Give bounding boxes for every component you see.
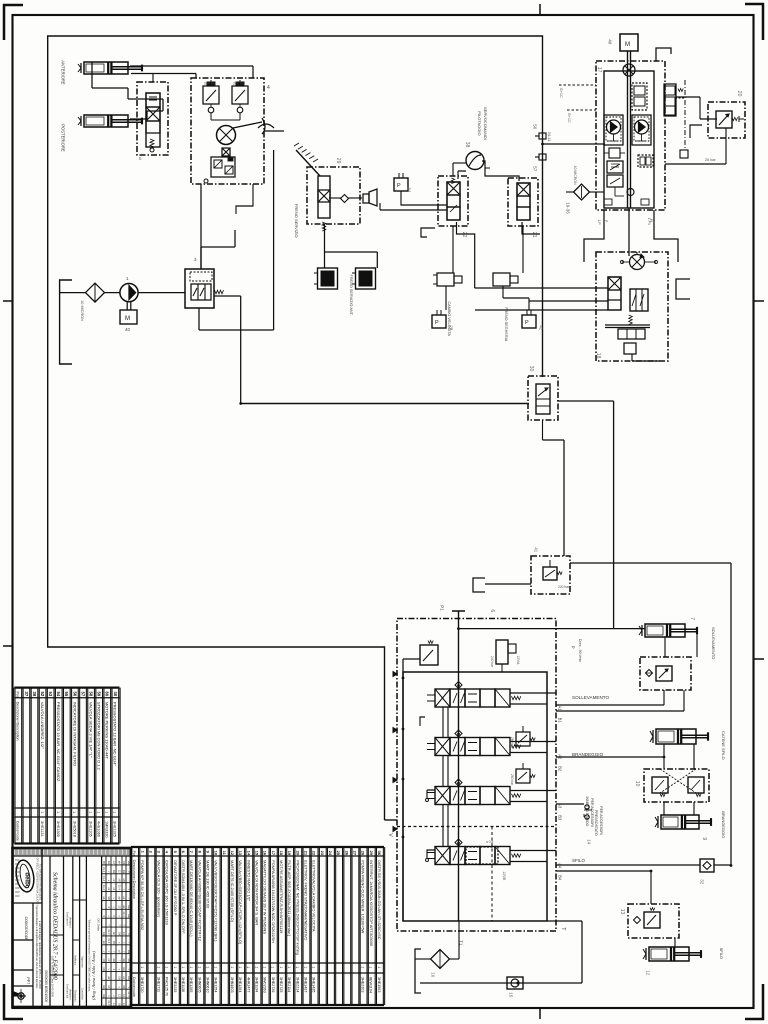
- svg-text:B3: B3: [558, 815, 563, 821]
- svg-text:20: 20: [736, 91, 742, 97]
- svg-text:RE: RE: [102, 985, 106, 989]
- svg-text:1: 1: [189, 966, 193, 968]
- svg-text:MART.DE 130 IC.455 ST.60: MART.DE 130 IC.455 ST.60: [206, 860, 211, 909]
- svg-text:260 bar: 260 bar: [510, 774, 514, 786]
- svg-text:1: 1: [197, 966, 201, 968]
- svg-text:3HE2214: 3HE2214: [295, 977, 299, 992]
- svg-text:31-4: 31-4: [102, 876, 106, 882]
- svg-text:SERVOCOMANDI: SERVOCOMANDI: [483, 107, 488, 140]
- svg-text:3HE1720: 3HE1720: [140, 977, 144, 992]
- svg-text:31-4: 31-4: [117, 885, 121, 891]
- svg-text:3HE1325: 3HE1325: [113, 821, 117, 837]
- svg-text:A4: A4: [558, 863, 563, 869]
- svg-text:14: 14: [587, 839, 592, 845]
- svg-text:3HE5018: 3HE5018: [72, 821, 76, 837]
- svg-text:SOLLEVAMENTO: SOLLEVAMENTO: [711, 627, 716, 659]
- svg-text:29: 29: [335, 158, 341, 164]
- svg-text:1: 1: [279, 966, 283, 968]
- svg-text:1: 1: [246, 966, 250, 968]
- svg-text:POMPA FRENO CUD MINER. 1/1100=: POMPA FRENO CUD MINER. 1/1100=5W: [361, 860, 366, 934]
- svg-text:26 bar: 26 bar: [705, 158, 717, 162]
- svg-text:3HN1603: 3HN1603: [230, 977, 234, 993]
- svg-text:FILTR.ASP. 50E.2X110/AL2011 (A: FILTR.ASP. 50E.2X110/AL2011 (Alimentaz.): [287, 860, 292, 937]
- svg-text:40: 40: [113, 692, 118, 697]
- svg-text:Codice=code: Codice=code: [132, 977, 136, 997]
- svg-text:15: 15: [255, 851, 260, 856]
- svg-text:240 bar: 240 bar: [490, 656, 494, 668]
- svg-text:P: P: [397, 183, 401, 189]
- svg-text:ELETTROV. FRENO STAZIONAM/NEGA: ELETTROV. FRENO STAZIONAM/NEGATIVO: [304, 860, 309, 940]
- svg-text:CATENE SFILO: CATENE SFILO: [721, 731, 726, 760]
- svg-text:1: 1: [230, 966, 234, 968]
- svg-text:57: 57: [80, 692, 85, 697]
- svg-text:4: 4: [267, 85, 270, 91]
- svg-text:10 MICRON: 10 MICRON: [80, 300, 84, 321]
- svg-text:RE: RE: [122, 870, 126, 874]
- svg-text:TEL 059-313000 FAX 059-313001: TEL 059-313000 FAX 059-313001: [39, 864, 42, 901]
- svg-text:VALVOLA OLS 120 - (posteriore): VALVOLA OLS 120 - (posteriore): [157, 860, 162, 917]
- svg-text:9W02363: 9W02363: [263, 977, 267, 993]
- svg-text:19: 19: [287, 851, 292, 856]
- svg-text:BRANDEGGIO: BRANDEGGIO: [572, 752, 604, 757]
- svg-text:Drex - 90 l/min: Drex - 90 l/min: [578, 639, 582, 662]
- svg-text:Disegnato: Disegnato: [74, 990, 77, 1002]
- svg-text:RE: RE: [102, 994, 106, 998]
- svg-text:CAMBIO VELOCITA: CAMBIO VELOCITA: [447, 301, 451, 336]
- svg-text:3HE1500: 3HE1500: [56, 821, 60, 837]
- svg-text:1: 1: [40, 811, 44, 813]
- svg-text:OK: OK: [117, 932, 121, 936]
- svg-text:55: 55: [64, 692, 69, 697]
- svg-text:RE: RE: [127, 905, 131, 909]
- svg-text:FRENO SEGHERIA: FRENO SEGHERIA: [504, 307, 508, 341]
- svg-text:RE: RE: [122, 967, 126, 971]
- svg-text:ANTERIORE: ANTERIORE: [61, 60, 66, 85]
- svg-text:14: 14: [246, 851, 251, 856]
- svg-text:3HE1435: 3HE1435: [312, 977, 316, 992]
- svg-text:1MN3320: 1MN3320: [105, 821, 109, 837]
- svg-text:DIS. N. B0501000 Data 10-05-: DIS. N. B0501000 Data 10-05-2000: [51, 956, 55, 998]
- svg-text:OK: OK: [122, 861, 126, 865]
- svg-text:PP7: PP7: [26, 977, 30, 984]
- svg-text:VALVOLA SEDIA 3 VIE 1/4" "L": VALVOLA SEDIA 3 VIE 1/4" "L": [89, 702, 94, 758]
- svg-text:4HE1060: 4HE1060: [97, 821, 101, 837]
- svg-text:a termini di legge - riproduzi: a termini di legge - riproduzione vietat…: [38, 921, 41, 990]
- svg-text:INNESTO RAPIDO 1/2": INNESTO RAPIDO 1/2": [246, 860, 251, 902]
- svg-text:FRENO SERVIZIO ANT.: FRENO SERVIZIO ANT.: [349, 275, 353, 316]
- svg-text:42: 42: [539, 325, 544, 331]
- svg-text:28: 28: [361, 851, 366, 856]
- svg-text:3HN0610: 3HN0610: [206, 977, 210, 993]
- svg-text:INNESTO RAPIDO: INNESTO RAPIDO: [585, 797, 589, 827]
- svg-text:31-4: 31-4: [107, 1000, 111, 1006]
- svg-text:1: 1: [271, 966, 275, 968]
- svg-text:24: 24: [328, 851, 333, 856]
- svg-text:PHC125.70: PHC125.70: [165, 977, 169, 996]
- svg-text:INTERRUT. 2xMARCIA KISSOSTOP A: INTERRUT. 2xMARCIA KISSOSTOP ART.503000: [369, 860, 374, 947]
- svg-text:SOLLEVAMENTO: SOLLEVAMENTO: [572, 695, 610, 700]
- svg-text:54: 54: [56, 692, 61, 697]
- svg-text:16: 16: [263, 851, 268, 856]
- svg-text:3HE1134: 3HE1134: [255, 977, 259, 992]
- svg-text:M: M: [625, 42, 630, 48]
- svg-text:3HN0605: 3HN0605: [197, 977, 201, 993]
- svg-text:10 MICRON: 10 MICRON: [573, 166, 577, 186]
- svg-text:31-4: 31-4: [102, 885, 106, 891]
- svg-text:12: 12: [646, 970, 651, 976]
- svg-text:FRENO SERVIZIO: FRENO SERVIZIO: [294, 204, 299, 238]
- svg-text:SFILO: SFILO: [572, 858, 586, 863]
- svg-text:4HA1477: 4HA1477: [246, 977, 250, 992]
- svg-text:3HE1437: 3HE1437: [303, 977, 307, 992]
- svg-text:MO: MO: [107, 896, 111, 900]
- svg-text:3HE1711: 3HE1711: [157, 977, 161, 992]
- svg-text:B2: B2: [558, 766, 563, 772]
- svg-text:1: 1: [312, 966, 316, 968]
- svg-text:RE: RE: [112, 870, 116, 874]
- svg-text:POMPA AR4058 104117/22W-NDC GR: POMPA AR4058 104117/22W-NDC GR2022/5H: [271, 860, 276, 943]
- svg-text:1: 1: [96, 811, 100, 813]
- svg-text:OK: OK: [117, 976, 121, 980]
- svg-text:21: 21: [304, 851, 309, 856]
- svg-text:DIS. Delbo: DIS. Delbo: [97, 919, 101, 932]
- svg-text:DISTR.SDM140/4 -3 IN 1- SFILO: DISTR.SDM140/4 -3 IN 1- SFILO ON-OFF: [181, 860, 186, 934]
- svg-text:3HE2203: 3HE2203: [361, 977, 365, 992]
- svg-text:VALV.VBSO=DE33CCAP=FC25L=12X90: VALV.VBSO=DE33CCAP=FC25L=12X90 (BR.): [214, 860, 219, 942]
- svg-text:3HE1264: 3HE1264: [238, 977, 242, 992]
- svg-text:P: P: [435, 320, 439, 326]
- svg-text:31-4: 31-4: [122, 911, 126, 917]
- svg-text:12V/A: 12V/A: [516, 655, 520, 665]
- svg-text:36: 36: [377, 851, 382, 856]
- svg-text:240 bar: 240 bar: [204, 82, 217, 86]
- svg-text:(Ang / Anna / Aldo / Aooo): (Ang / Anna / Aldo / Aooo): [91, 951, 96, 1000]
- svg-text:0600X000 B05010000: 0600X000 B05010000: [44, 970, 48, 1002]
- svg-text:10: 10: [634, 781, 640, 787]
- svg-text:VALV.A=VB50=SE33CCAP=FC3PL=12=: VALV.A=VB50=SE33CCAP=FC3PL=12=(SFILO): [238, 860, 243, 945]
- svg-text:MO: MO: [122, 985, 126, 989]
- svg-text:3HE1265: 3HE1265: [189, 977, 193, 992]
- svg-text:3HE1105: 3HE1105: [88, 821, 92, 837]
- svg-text:P: P: [604, 220, 608, 222]
- svg-text:38: 38: [464, 142, 470, 148]
- svg-text:1: 1: [254, 966, 258, 968]
- svg-text:1: 1: [140, 966, 144, 968]
- svg-text:P: P: [525, 320, 529, 326]
- svg-text:1: 1: [72, 811, 76, 813]
- svg-text:MO: MO: [122, 879, 126, 883]
- svg-text:56: 56: [533, 124, 538, 130]
- svg-text:RE: RE: [122, 959, 126, 963]
- svg-text:P: P: [571, 646, 576, 649]
- svg-text:15: 15: [509, 992, 514, 998]
- svg-text:37: 37: [24, 692, 29, 697]
- svg-text:Tolleranze generali di lavoraz: Tolleranze generali di lavorazione UNI-I…: [88, 919, 91, 992]
- svg-text:Approvato: Approvato: [81, 956, 84, 968]
- svg-text:17: 17: [596, 67, 602, 73]
- svg-text:Sostituisce il: Sostituisce il: [66, 912, 69, 926]
- svg-text:41: 41: [534, 547, 539, 553]
- svg-text:12V/B: 12V/B: [502, 871, 506, 881]
- svg-text:3HE3235: 3HE3235: [173, 977, 177, 992]
- svg-text:RE: RE: [112, 959, 116, 963]
- svg-text:3HE2725: 3HE2725: [279, 977, 283, 992]
- svg-text:220 bar: 220 bar: [558, 585, 570, 589]
- svg-text:16: 16: [431, 972, 436, 978]
- svg-text:34: 34: [407, 187, 412, 193]
- svg-text:1: 1: [361, 966, 365, 968]
- svg-text:M: M: [125, 316, 130, 322]
- svg-text:P1: P1: [440, 605, 445, 611]
- svg-text:17: 17: [271, 851, 276, 856]
- svg-text:22: 22: [312, 851, 317, 856]
- svg-text:delbo: delbo: [24, 872, 30, 888]
- svg-text:9: 9: [701, 837, 707, 840]
- svg-text:59: 59: [97, 692, 102, 697]
- svg-text:B4: B4: [558, 875, 563, 881]
- svg-text:60: 60: [105, 692, 110, 697]
- svg-text:1: 1: [238, 966, 242, 968]
- svg-text:1: 1: [205, 966, 209, 968]
- svg-text:SFILO: SFILO: [719, 948, 724, 960]
- svg-text:3HE1254: 3HE1254: [214, 977, 218, 992]
- svg-text:Verificato: Verificato: [74, 955, 77, 966]
- svg-text:1: 1: [105, 811, 109, 813]
- svg-text:DISTR.SE.VS03-3/AB=DD=AV=3T=32: DISTR.SE.VS03-3/AB=DD=AV=3T=320C=SC: [377, 860, 382, 940]
- svg-text:CODICE/CODE: CODICE/CODE: [24, 917, 28, 942]
- svg-text:STROZZATORI M8 CON FORO D.1.2: STROZZATORI M8 CON FORO D.1.2: [97, 702, 102, 771]
- svg-text:OFF.MECC. 41100 MODENA VIA D.S: OFF.MECC. 41100 MODENA VIA D.SUORE: [36, 858, 39, 905]
- svg-text:31-4: 31-4: [107, 929, 111, 935]
- svg-text:240 bar: 240 bar: [233, 82, 246, 86]
- svg-text:OK: OK: [102, 967, 106, 971]
- svg-text:ELETTROVALVOLA CAMBIO VELOCITA: ELETTROVALVOLA CAMBIO VELOCITA: [312, 860, 317, 932]
- svg-text:27: 27: [353, 851, 358, 856]
- svg-text:PILOTAGGIO: PILOTAGGIO: [477, 111, 482, 135]
- svg-text:Descrizione=Description: Descrizione=Description: [16, 702, 20, 741]
- svg-text:38: 38: [32, 692, 37, 697]
- svg-text:13: 13: [238, 851, 243, 856]
- svg-text:52: 52: [40, 692, 45, 697]
- svg-text:INDICATORE DI INTASAM. FILTRO: INDICATORE DI INTASAM. FILTRO: [72, 702, 77, 766]
- svg-text:1: 1: [214, 966, 218, 968]
- svg-text:disegno n.: disegno n.: [69, 917, 72, 929]
- svg-text:RE: RE: [127, 976, 131, 980]
- svg-text:40: 40: [125, 327, 131, 332]
- svg-text:40: 40: [608, 39, 613, 45]
- svg-text:1: 1: [181, 966, 185, 968]
- svg-text:1: 1: [165, 966, 169, 968]
- svg-text:VALVOLA A=VB50=SE30=OCAP=FC25T: VALVOLA A=VB50=SE30=OCAP=FC25TR=12: [197, 860, 202, 941]
- svg-text:1: 1: [56, 811, 60, 813]
- svg-text:MOTORE PERKINS 1104D-44T: MOTORE PERKINS 1104D-44T: [105, 702, 110, 760]
- svg-text:23: 23: [320, 851, 325, 856]
- svg-text:Pos: Pos: [132, 851, 136, 857]
- svg-text:1: 1: [369, 966, 373, 968]
- svg-text:VALVOLA DI NON RITOR.3/4 S. BA: VALVOLA DI NON RITOR.3/4 S. BAR: [255, 860, 260, 925]
- svg-text:10: 10: [214, 851, 219, 856]
- svg-text:53: 53: [48, 692, 53, 697]
- svg-text:1: 1: [113, 811, 117, 813]
- svg-text:22: 22: [461, 232, 467, 238]
- svg-text:26: 26: [344, 851, 349, 856]
- svg-text:T1: T1: [459, 940, 464, 946]
- svg-text:58: 58: [89, 692, 94, 697]
- svg-text:1: 1: [295, 966, 299, 968]
- svg-text:18: 18: [595, 353, 601, 359]
- svg-text:Pos: Pos: [16, 692, 20, 698]
- svg-text:MO: MO: [102, 861, 106, 865]
- svg-text:B1: B1: [558, 718, 563, 724]
- svg-text:1: 1: [173, 966, 177, 968]
- svg-text:1 P: 1 P: [597, 220, 601, 226]
- svg-text:31-4: 31-4: [127, 991, 131, 997]
- svg-text:RE: RE: [127, 914, 131, 918]
- svg-text:MO: MO: [127, 959, 131, 963]
- svg-text:21: 21: [531, 232, 537, 238]
- svg-text:3HE1136: 3HE1136: [181, 977, 185, 992]
- svg-text:31-4: 31-4: [107, 938, 111, 944]
- svg-text:OK: OK: [117, 1003, 121, 1007]
- svg-text:19-36: 19-36: [566, 202, 571, 214]
- svg-text:1: 1: [303, 966, 307, 968]
- svg-text:RE: RE: [127, 950, 131, 954]
- svg-text:3HE1131: 3HE1131: [40, 821, 44, 837]
- svg-text:13: 13: [619, 909, 625, 915]
- svg-text:29: 29: [369, 851, 374, 856]
- svg-text:MO: MO: [112, 941, 116, 945]
- svg-text:3HE2114: 3HE2114: [287, 977, 291, 992]
- svg-text:RE: RE: [107, 861, 111, 865]
- svg-text:12: 12: [230, 851, 235, 856]
- svg-text:MAGATTILDO DEXAUS 28.7 W PENDI: MAGATTILDO DEXAUS 28.7 W PENDINS: [263, 860, 268, 934]
- svg-text:PER ACCESSORI: PER ACCESSORI: [590, 798, 594, 827]
- svg-text:32: 32: [700, 879, 705, 885]
- svg-text:1: 1: [88, 811, 92, 813]
- svg-text:RE: RE: [127, 861, 131, 865]
- svg-text:1: 1: [157, 966, 161, 968]
- svg-text:Codice=code: Codice=code: [16, 821, 20, 841]
- svg-text:PROPORZIONAT. NC PRESS.DISOOPT: PROPORZIONAT. NC PRESS.DISOOPTO=SP inchi…: [295, 860, 300, 955]
- svg-text:MOT.RE ASSIAMETRAT./5.5H=W7001: MOT.RE ASSIAMETRAT./5.5H=W7001119: [279, 860, 284, 933]
- svg-text:31-4: 31-4: [102, 867, 106, 873]
- svg-text:260 bar: 260 bar: [510, 737, 514, 749]
- svg-text:1: 1: [263, 966, 267, 968]
- svg-text:Il presente disegno e di propr: Il presente disegno e di proprieta della…: [35, 905, 38, 989]
- svg-text:Controllato: Controllato: [81, 988, 84, 1001]
- svg-text:25: 25: [336, 851, 341, 856]
- svg-text:56: 56: [72, 692, 77, 697]
- svg-text:POMPA KP 30.34 DX-LGF-LEL/EIA-: POMPA KP 30.34 DX-LGF-LEL/EIA-N32: [140, 860, 145, 930]
- svg-text:3HE1563: 3HE1563: [377, 977, 381, 992]
- svg-text:18: 18: [279, 851, 284, 856]
- svg-text:34-41: 34-41: [547, 132, 552, 143]
- svg-text:7: 7: [689, 617, 695, 620]
- svg-text:BRANDEGGIO: BRANDEGGIO: [721, 811, 726, 838]
- svg-text:OK: OK: [102, 959, 106, 963]
- svg-text:POSTERIORE: POSTERIORE: [61, 124, 66, 152]
- svg-text:Sostituito dal: Sostituito dal: [66, 984, 69, 999]
- svg-text:1 P1: 1 P1: [647, 218, 651, 225]
- svg-text:IDROGUIDA OSPC 160 LS 150/1233: IDROGUIDA OSPC 160 LS 150/1233: [165, 860, 170, 925]
- svg-text:MART.DE75 IC.2400 ST.55 (SFILO: MART.DE75 IC.2400 ST.55 (SFILO): [230, 860, 235, 923]
- svg-text:1: 1: [377, 966, 381, 968]
- svg-text:6: 6: [489, 609, 495, 612]
- svg-text:Descrizione=Description: Descrizione=Description: [132, 860, 136, 899]
- svg-text:3HE2726: 3HE2726: [271, 977, 275, 992]
- svg-text:RE: RE: [102, 932, 106, 936]
- svg-text:PER ACCESSORI: PER ACCESSORI: [599, 806, 603, 835]
- svg-text:T: T: [560, 927, 566, 930]
- svg-text:PRESSOSTATO 10 BAR -NC-G1/4" C: PRESSOSTATO 10 BAR -NC-G1/4" CAMOZ: [56, 702, 61, 782]
- svg-text:B+1C: B+1C: [559, 88, 563, 98]
- svg-text:30: 30: [528, 366, 534, 372]
- svg-text:8EW1104: 8EW1104: [369, 977, 373, 993]
- svg-text:VALVOLA UNIDIREZ. 1/2": VALVOLA UNIDIREZ. 1/2": [40, 702, 45, 749]
- svg-text:57: 57: [533, 166, 538, 172]
- svg-text:MART.DE130X80 DE.65X40 C.1045: MART.DE130X80 DE.65X40 C.1045 (SOLL): [189, 860, 194, 937]
- svg-text:DEVIATORE-3F-DU 6F/GD50 P: DEVIATORE-3F-DU 6F/GD50 P: [173, 860, 178, 916]
- svg-text:disegno n.: disegno n.: [69, 989, 72, 1001]
- svg-text:B+1C: B+1C: [567, 113, 571, 123]
- svg-text:20: 20: [295, 851, 300, 856]
- svg-text:PRESSOSTATO 12 BAR -NC-G1/4": PRESSOSTATO 12 BAR -NC-G1/4": [113, 702, 118, 766]
- svg-text:MO: MO: [117, 879, 121, 883]
- svg-text:1: 1: [287, 966, 291, 968]
